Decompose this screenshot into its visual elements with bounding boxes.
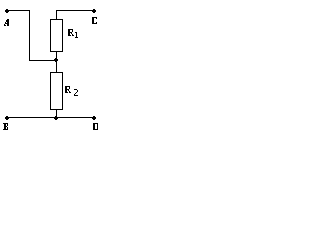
wire stub R1 top (56, 11, 58, 20)
node A (5, 9, 9, 13)
node D (92, 116, 96, 120)
label D (93, 123, 98, 130)
wire C horizontal top (56, 10, 94, 12)
wire stub R1 bottom (56, 52, 58, 61)
junction R1-R2 (54, 58, 58, 62)
node C (92, 9, 96, 13)
wire bottom B to D (7, 117, 95, 119)
label B (3, 123, 8, 130)
label A (4, 19, 9, 26)
resistor R1 (51, 20, 63, 52)
wire stub R2 bottom (56, 110, 58, 118)
resistor R2 (51, 73, 63, 110)
label R1 (68, 29, 74, 36)
label R2 (65, 86, 71, 93)
label C (92, 17, 97, 24)
wire stub R2 top (56, 61, 58, 73)
wire A vertical drop (29, 11, 31, 61)
wire A horizontal top (7, 10, 30, 12)
junction bottom (54, 116, 58, 120)
wire A to mid junction (29, 60, 57, 62)
node B (5, 116, 9, 120)
